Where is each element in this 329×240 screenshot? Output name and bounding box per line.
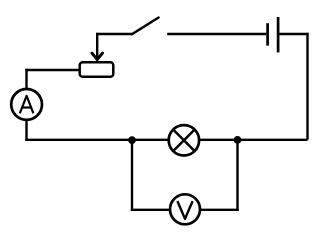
wire: wiper riser horizontal to switch pivot [96,33,132,35]
ammeter A1 circle [11,89,42,120]
battery cell B1: positive (long) plate [277,17,280,52]
wire: top-left horizontal from left branch to rheostat [25,69,79,71]
wire: wiper vertical riser [96,33,98,58]
node junction dot left [128,136,136,144]
wiper arrowhead pointing down at rheostat [92,53,103,60]
wire: voltmeter branch bottom-left horizontal [131,209,171,211]
wire: voltmeter branch left vertical [131,139,133,211]
rheostat R1 (resistor box) [80,62,114,76]
lamp L1 circle [169,125,199,155]
lamp L1 cross stroke 1 [174,130,195,151]
wire: top-right horizontal (battery positive plate to corner) [279,33,309,35]
switch S1 (open blade) [132,18,159,35]
voltmeter V1 circle [170,194,200,224]
wire: voltmeter branch bottom-right horizontal [200,209,239,211]
label V (voltmeter), drawn as path [177,201,192,219]
label A (ammeter), drawn as path [20,96,34,114]
wire: voltmeter branch right vertical [236,139,238,211]
wire: bottom rail right segment (lamp to right corner) [200,139,308,141]
wire: right vertical (battery down to bottom rail) [306,33,308,140]
wire: bottom rail left segment (ammeter corner to lamp) [25,139,168,141]
wire: ammeter bottom to bottom rail [25,120,27,142]
wire: switch right contact to battery negative plate [167,33,266,35]
battery cell B1: negative (short) plate [266,23,269,45]
lamp L1 cross stroke 2 [174,130,195,151]
wire: left vertical from corner down to ammeter top [25,69,27,89]
node junction dot right [234,136,242,144]
